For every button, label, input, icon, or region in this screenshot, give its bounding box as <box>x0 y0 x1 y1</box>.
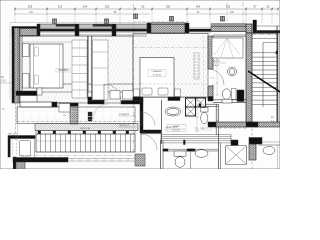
wall bedroom1 east <box>87 36 89 100</box>
hall closet <box>93 40 109 100</box>
wardrobe bedroom1 <box>72 40 87 98</box>
bedroom1 south wall <box>16 91 37 96</box>
dim chain door <box>216 58 218 95</box>
axis marker D <box>170 17 174 22</box>
window jamb 2 <box>75 24 79 36</box>
window jamb 3 <box>112 24 116 36</box>
toilet 1 tank <box>201 108 208 113</box>
stair axis dashdot <box>252 34 280 36</box>
wc south wall <box>143 130 161 133</box>
dimension line secondary <box>15 13 150 15</box>
extension lines <box>14 11 16 23</box>
svg-text:2.10: 2.10 <box>1 81 6 83</box>
parquet floor room2 <box>133 34 208 98</box>
dim marks door <box>210 77 215 79</box>
bed 1 <box>30 44 63 88</box>
band tick <box>184 140 186 145</box>
room2 east wall <box>208 36 213 69</box>
hall south wall black right <box>121 101 140 105</box>
window 2 <box>79 23 112 25</box>
wall black segment right <box>231 140 238 147</box>
hall cabinets south <box>110 91 120 100</box>
lower right wall hatch <box>249 144 256 160</box>
terrace planter small <box>59 104 70 113</box>
axis marker E <box>221 17 225 22</box>
dashed vert lower <box>251 128 253 169</box>
bath dim 90 <box>195 129 212 131</box>
wall block top-right <box>211 24 246 27</box>
lower dashed line <box>195 127 247 129</box>
overhang dashed room2 <box>133 21 190 23</box>
sink 3 <box>263 147 275 155</box>
left wall <box>12 27 14 104</box>
parquet floor bedroom1 <box>22 36 88 92</box>
svg-text:3П: 3П <box>1 77 4 79</box>
nightstand room2 right <box>175 89 181 97</box>
window jamb 1 <box>37 24 40 36</box>
door hall swing up <box>104 84 121 101</box>
wc toilet tank <box>232 89 237 100</box>
room2 dash line <box>133 83 208 85</box>
room2 east wall cap <box>208 97 213 102</box>
wc south wall <box>213 99 246 101</box>
toilet 2 tank <box>174 151 186 156</box>
svg-text:12.40 м2: 12.40 м2 <box>153 75 163 77</box>
washbasin <box>165 107 181 116</box>
bedroom1 inner face lines <box>22 41 88 43</box>
room2 dashed vert <box>203 36 205 95</box>
stair wall corner black <box>237 90 244 102</box>
lower bath west wall <box>160 140 162 169</box>
nightstand bottom <box>23 74 30 89</box>
sill dark top 2 <box>93 24 112 26</box>
door lower-left arc <box>141 134 157 150</box>
top right wall lines <box>257 25 281 27</box>
stair wall pier top <box>246 24 252 33</box>
shower <box>226 146 247 165</box>
terrace east wall <box>70 103 78 124</box>
pillow 2 <box>34 75 39 84</box>
railing posts <box>38 131 41 134</box>
svg-text:МОКРО 2.1: МОКРО 2.1 <box>166 127 178 129</box>
sliding terrace door <box>20 102 52 107</box>
terrace north wall lines <box>57 102 70 104</box>
room2 south wall <box>133 97 143 101</box>
stair top black bar <box>253 20 257 33</box>
bath west wall <box>161 100 163 144</box>
radiator <box>194 53 199 79</box>
room2 axis dashdot <box>133 47 208 49</box>
lower right edge line <box>277 145 279 169</box>
sink 2 <box>195 150 208 158</box>
svg-text:235: 235 <box>166 5 171 9</box>
parquet floor hall <box>88 36 133 92</box>
pergola hatch band <box>35 124 138 131</box>
bay wall <box>151 23 185 25</box>
stair treads <box>253 52 281 54</box>
wc room west wall <box>140 99 143 133</box>
wc sink <box>228 67 237 76</box>
wc cabinet <box>212 38 243 58</box>
parquet floor hall south <box>37 84 133 103</box>
axis marker A <box>53 19 57 24</box>
bench terrace <box>20 141 31 157</box>
hall small marks <box>88 112 92 116</box>
lower bath mid wall <box>163 148 218 150</box>
stair wall hatched <box>246 33 252 122</box>
shaft boxes <box>186 98 196 107</box>
stair newel mark <box>276 51 279 54</box>
bed 2 <box>140 58 174 98</box>
toilet 1 bowl <box>201 112 208 123</box>
pillow 3 <box>142 88 152 95</box>
svg-text:ПЕРГОЛА: ПЕРГОЛА <box>80 127 90 130</box>
toilet 2 bowl <box>175 157 185 168</box>
svg-text:120: 120 <box>58 5 63 9</box>
svg-text:235: 235 <box>226 5 231 9</box>
wc toilet bowl <box>222 89 230 99</box>
french window <box>189 27 211 29</box>
lower unit wall black <box>13 158 68 163</box>
left wall lower dashed <box>15 103 17 140</box>
planter box left <box>8 136 35 139</box>
lower bath east wall <box>218 134 220 169</box>
striped band counter <box>161 134 231 136</box>
pillow 4 <box>158 88 168 95</box>
bay jamb left <box>147 23 151 33</box>
centerline grid x=243 <box>242 2 244 30</box>
outer face line left <box>9 23 11 101</box>
centerline grid x=227 <box>226 2 228 22</box>
wc door arc <box>208 69 224 85</box>
bay jamb right <box>185 23 189 33</box>
wc door opening <box>222 99 232 103</box>
pillow 1 <box>34 47 39 56</box>
stair right wall <box>276 26 278 125</box>
lower parapet lines <box>68 157 135 159</box>
outer face line top <box>10 22 150 24</box>
railing balusters <box>36 134 135 152</box>
sill dark top 1 <box>56 24 75 26</box>
svg-text:150: 150 <box>105 5 110 9</box>
axis marker B <box>105 19 109 24</box>
lower unit wall line <box>140 133 161 135</box>
nightstand room2 left <box>134 89 140 97</box>
landing wall bottom <box>216 122 280 127</box>
landing dim chain <box>217 109 219 122</box>
door wc arc <box>141 112 155 126</box>
svg-text:3.8 м2: 3.8 м2 <box>213 65 220 67</box>
door room2-hall leaf <box>208 85 213 87</box>
nightstand top <box>23 44 30 57</box>
axis marker C <box>134 14 138 19</box>
corner cabinet <box>37 88 42 95</box>
dimension line main <box>14 8 278 10</box>
svg-text:WC 2.1: WC 2.1 <box>213 61 221 63</box>
lower bath divider <box>190 151 192 169</box>
dashed line under railing <box>20 155 135 157</box>
svg-text:4.20 м2: 4.20 м2 <box>172 130 180 132</box>
terrace tile floor <box>17 107 135 124</box>
door hall swing down <box>93 104 108 119</box>
window 3 <box>116 23 147 25</box>
stair cut diagonal <box>248 71 280 92</box>
stair stringer <box>262 43 264 108</box>
bottom left pier <box>13 157 16 169</box>
bottom hatch pier <box>135 154 145 166</box>
terrace overhang dashed <box>17 121 140 123</box>
svg-text:104: 104 <box>83 5 88 9</box>
svg-text:СПАЛНЯ 2: СПАЛНЯ 2 <box>151 70 163 73</box>
svg-text:ТЕР. 12.5: ТЕР. 12.5 <box>8 134 18 136</box>
svg-text:235: 235 <box>28 5 33 9</box>
bathroom north-east wall <box>206 103 219 105</box>
window 1 <box>40 23 75 25</box>
dim chain bath <box>196 99 198 133</box>
svg-text:104: 104 <box>196 5 201 9</box>
centerline grid x=133 <box>133 4 135 152</box>
corner block top-left <box>12 27 37 29</box>
svg-text:СПАЛНЯ: СПАЛНЯ <box>58 69 68 72</box>
hall south wall black left <box>88 101 104 105</box>
stair landing lines <box>252 37 280 39</box>
